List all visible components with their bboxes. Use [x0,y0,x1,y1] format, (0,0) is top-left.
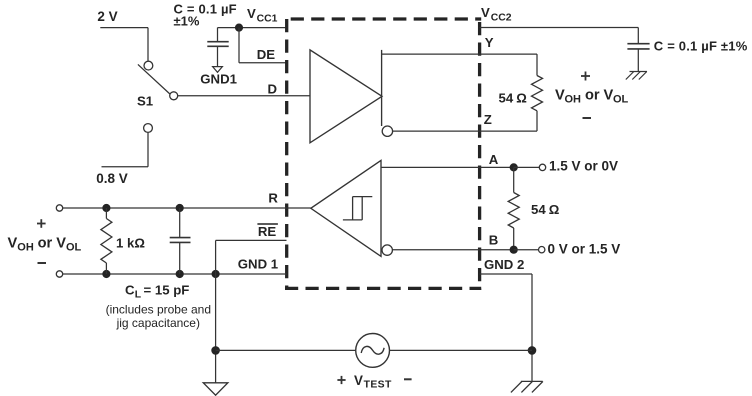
wire: DE vertical from VCC1 junction [238,28,240,63]
svg-text:GND1: GND1 [200,71,237,86]
capacitor C2 bottom lead [637,50,639,72]
wire: RE horizontal to box pin [216,239,287,241]
svg-text:OH: OH [565,94,582,106]
wire: D from switch pole to driver input [178,95,311,97]
svg-text:C = 0.1 µF ±1%: C = 0.1 µF ±1% [654,38,748,53]
resistor 54 ohm (A-B) top lead [513,167,515,192]
svg-text:C: C [125,282,135,297]
capacitor C1 bottom lead [217,47,219,67]
ground GND1 arrow symbol [213,67,223,73]
capacitor CL plates [170,237,191,239]
wire: A to terminal [514,166,540,168]
svg-text:±1%: ±1% [174,14,200,29]
junction dot VCC1/C1/DE [235,24,243,32]
svg-text:V: V [354,373,363,388]
svg-text:0 V or 1.5 V: 0 V or 1.5 V [548,242,621,257]
junction dots on R wire [102,204,110,212]
wire: RE vertical [215,240,217,274]
wire: 0.8V vertical up to switch throw 2 [147,133,149,167]
terminal circle B [539,247,545,253]
driver inverting output bubble [382,126,392,136]
svg-text:= 15 pF: = 15 pF [144,282,190,297]
wire: Z output from bubble to resistor [393,130,537,132]
svg-text:2 V: 2 V [97,9,117,24]
wire: right vertical down to bottom rail [531,274,533,381]
op-amp receiver U2 triangle [311,160,381,256]
capacitor C2 top lead [637,28,639,44]
resistor 1 kohm [101,219,112,264]
svg-text:V: V [604,88,614,104]
svg-text:V: V [56,235,66,251]
svg-text:1.5 V or 0V: 1.5 V or 0V [549,159,618,174]
wire: B input [392,249,513,251]
ground triangle bottom left [203,383,228,395]
switch S1 throw-1 contact circle [144,61,153,70]
wire: Y down to 54ohm resistor [536,54,538,75]
junction dot bottom left [211,346,220,355]
svg-text:or: or [38,235,53,251]
svg-text:54: 54 [499,90,514,105]
svg-text:Ω: Ω [516,91,527,106]
wire: VCC1 rail from cap C1 to junction to box pin [218,27,287,29]
minus sign VOH right [583,117,592,119]
open terminal top-left [56,205,62,211]
svg-text:Ω: Ω [549,202,560,217]
svg-text:OL: OL [66,241,82,253]
svg-text:GND 1: GND 1 [238,256,278,271]
receiver inverting input bubble [382,245,392,255]
source VTEST sine [361,346,384,354]
svg-text:1 kΩ: 1 kΩ [116,235,145,250]
resistor 1 kohm top lead [105,208,107,219]
resistor 54 ohm (Y-Z) [532,76,543,111]
svg-text:B: B [489,232,499,247]
svg-text:Y: Y [485,35,494,50]
wire: bottom rail right segment [390,349,532,351]
resistor 54 ohm (A-B) bottom lead [513,228,515,250]
op-amp driver U1 triangle [310,50,382,143]
svg-text:CC2: CC2 [491,13,512,24]
junction dot bottom right [528,346,537,355]
minus sign VTEST [404,378,412,380]
chassis ground bottom right [521,380,543,382]
svg-text:0.8 V: 0.8 V [96,171,128,186]
switch S1 throw-2 contact circle [144,124,153,133]
svg-text:OH: OH [17,241,34,253]
svg-text:D: D [268,81,278,96]
wire: 2V feed horizontal [100,27,148,29]
svg-text:or: or [585,88,600,104]
capacitor C2 plates [627,43,649,45]
plus sign VTEST [337,379,345,381]
wire: 0.8V feed horizontal [102,166,149,168]
svg-text:S1: S1 [137,94,153,109]
svg-text:RE: RE [258,224,277,239]
capacitor C1 top lead [217,28,219,41]
wire: B to terminal [514,249,539,251]
terminal circle A [539,164,545,170]
wire: DE horizontal to box pin [239,62,287,64]
source VTEST circle [356,334,390,368]
svg-text:CC1: CC1 [257,14,278,25]
junction dots on GND1 wire [102,270,110,278]
resistor 1 kohm bottom lead [105,263,107,274]
wire: 2V feed vertical down to switch throw 1 [147,28,149,61]
receiver hysteresis symbol [353,196,373,198]
junction dot A [510,163,518,171]
driver output bar [381,50,383,126]
switch S1 pole contact circle [170,92,178,100]
svg-text:R: R [268,190,278,205]
open terminal bottom-left [56,271,62,277]
junction dot B [510,246,518,254]
minus sign VOH left [38,262,47,264]
svg-text:54: 54 [531,202,546,217]
capacitor CL top lead [179,208,181,237]
svg-text:TEST: TEST [364,379,392,390]
svg-text:V: V [555,88,565,104]
svg-text:V: V [8,235,18,251]
svg-text:GND 2: GND 2 [484,257,524,272]
capacitor C1 plates [207,41,228,43]
svg-text:(includes probe and: (includes probe and [106,302,211,316]
svg-text:Z: Z [484,112,492,127]
wire: Y output [382,53,537,55]
wire: GND2 from box to right vertical [480,273,532,275]
dashed DUT box [285,19,481,290]
capacitor CL bottom lead [179,243,181,274]
chassis ground for C2 [630,71,648,73]
resistor lead to Z wire [536,111,538,131]
plus sign VOH right [581,75,590,77]
wire: VCC2 rail to cap C2 [480,27,639,29]
wire: bottom GND1 rail [62,273,286,275]
wire: A input [381,166,514,168]
svg-text:DE: DE [257,47,276,62]
svg-text:L: L [135,289,142,300]
svg-text:jig capacitance): jig capacitance) [116,316,200,330]
svg-text:V: V [247,6,256,21]
resistor 54 ohm (A-B) [508,193,519,229]
wire: left vertical from GND1 rail to bottom rail [215,274,217,383]
svg-text:V: V [481,5,490,20]
wire: bottom rail left segment [216,349,356,351]
plus sign VOH left [37,223,46,225]
switch S1 lever [138,64,170,94]
svg-text:A: A [489,152,499,167]
wire: R from terminal network to receiver [62,207,310,209]
svg-text:OL: OL [613,94,629,106]
